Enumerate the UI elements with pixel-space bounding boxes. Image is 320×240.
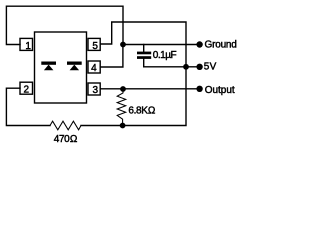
svg-text:4: 4 [91,63,97,74]
svg-text:Output: Output [205,85,235,96]
svg-text:6.8K: 6.8K [128,105,148,116]
svg-text:2: 2 [24,85,30,96]
svg-text:Ground: Ground [205,40,237,51]
svg-text:5: 5 [92,41,98,52]
svg-text:V: V [210,62,217,73]
svg-text:0.1µF: 0.1µF [153,50,177,61]
svg-text:Ω: Ω [70,134,78,145]
svg-text:1: 1 [25,41,31,52]
svg-text:Ω: Ω [148,105,156,116]
svg-text:470: 470 [54,134,70,145]
svg-text:3: 3 [93,85,99,96]
